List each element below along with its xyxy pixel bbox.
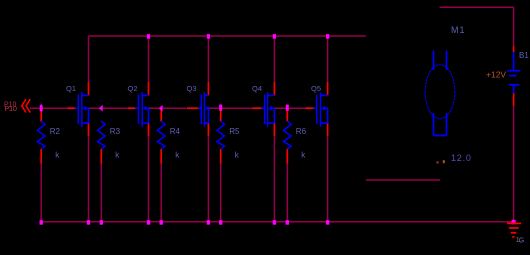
svg-text:B1: B1 bbox=[519, 51, 529, 60]
svg-text:Q5: Q5 bbox=[311, 84, 321, 93]
svg-text:Q3: Q3 bbox=[187, 84, 197, 93]
svg-text:R4: R4 bbox=[170, 127, 181, 136]
svg-text:+12V: +12V bbox=[486, 70, 506, 80]
svg-text:R2: R2 bbox=[50, 127, 61, 136]
svg-text:G: G bbox=[519, 238, 524, 245]
svg-text:Q4: Q4 bbox=[252, 84, 262, 93]
svg-text:k: k bbox=[175, 151, 180, 160]
svg-text:k: k bbox=[115, 151, 120, 160]
svg-text:k: k bbox=[301, 151, 306, 160]
svg-text:R5: R5 bbox=[229, 127, 240, 136]
svg-text:P10: P10 bbox=[5, 106, 18, 113]
svg-text:12.0: 12.0 bbox=[451, 153, 472, 163]
svg-text:R3: R3 bbox=[110, 127, 121, 136]
svg-text:k: k bbox=[55, 151, 60, 160]
svg-text:k: k bbox=[235, 151, 240, 160]
svg-text:M1: M1 bbox=[451, 25, 466, 35]
svg-text:Q2: Q2 bbox=[128, 84, 138, 93]
svg-text:R6: R6 bbox=[296, 127, 307, 136]
svg-text:Q1: Q1 bbox=[66, 84, 76, 93]
